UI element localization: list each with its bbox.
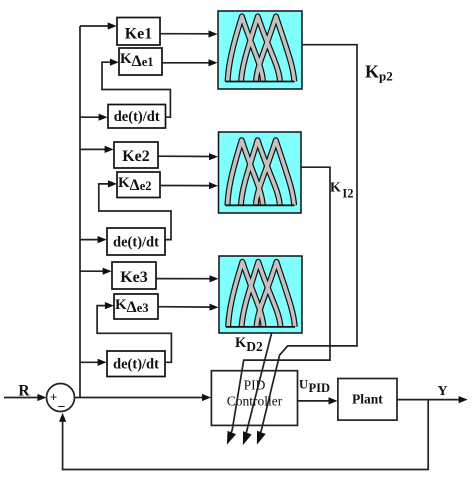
wire Ke2 to fuzzy F2 [158,153,218,160]
svg-text:Y: Y [438,384,448,399]
svg-text:PID: PID [244,378,266,393]
wire branch to Ke2 [80,146,114,153]
svg-text:Ke1: Ke1 [125,25,153,42]
wire Ke1 to fuzzy F1 [160,30,218,37]
wire KΔe2 to fuzzy F2 [160,182,218,189]
svg-text:+: + [50,390,57,405]
summing junction [47,384,75,416]
wire KD2 from F3 to PID (diagonal) [239,334,272,447]
block de(t)/dt 3 [107,351,165,377]
wire feedback loop [59,400,428,470]
svg-text:−: − [58,400,66,415]
block Ke2 [114,142,158,168]
wire branch to Ke3 [80,268,112,275]
svg-text:KI2: KI2 [330,181,354,201]
wire Kp2 from F1 to PID (diagonal) [253,45,357,446]
block Ke3 [112,262,156,289]
svg-text:Ke3: Ke3 [120,269,148,286]
svg-text:Kp2: Kp2 [365,61,393,83]
wire KI2 from F2 to PID (diagonal) [223,167,330,446]
block Ke1 [117,18,160,46]
svg-text:Plant: Plant [352,392,383,407]
wire branch to de(t)/dt 1 [80,114,108,121]
fuzzy block F3 [219,256,302,333]
wire de(t)/dt 3 loop to KΔe3 [97,302,171,362]
svg-text:UPID: UPID [299,378,330,395]
block KΔe3 [114,294,158,319]
wire Ke3 to fuzzy F3 [156,275,219,282]
fuzzy block F1 [218,11,302,89]
block Plant [338,379,397,421]
block de(t)/dt 1 [108,105,166,129]
svg-text:Ke2: Ke2 [122,148,150,165]
svg-text:KD2: KD2 [235,335,263,354]
wire de(t)/dt 1 loop to KΔe1 [102,59,170,118]
wire Plant to Y output [397,396,468,403]
wire de(t)/dt 2 loop to KΔe2 [99,180,171,239]
wire branch to de(t)/dt 2 [80,236,107,243]
svg-text:de(t)/dt: de(t)/dt [114,109,160,125]
block KΔe2 [117,172,160,198]
svg-text:de(t)/dt: de(t)/dt [113,235,159,251]
block PID controller [211,371,297,426]
wire PID to Plant [298,397,338,404]
fuzzy block F2 [219,132,302,213]
block de(t)/dt 2 [107,228,165,255]
wire summing junction to PID controller [75,394,211,401]
wire branch to Ke1 [80,22,117,29]
svg-text:Controller: Controller [227,394,283,409]
block KΔe1 [119,48,162,75]
wire R input [4,394,46,401]
wire KΔe1 to fuzzy F1 [162,59,218,66]
svg-text:R: R [18,383,30,400]
wire error bus vertical [79,26,81,398]
wire branch to de(t)/dt 3 [80,359,107,366]
svg-text:de(t)/dt: de(t)/dt [113,357,159,373]
wire KΔe3 to fuzzy F3 [158,304,219,311]
